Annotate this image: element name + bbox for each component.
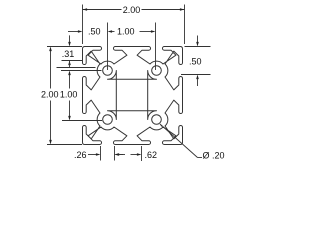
dimension 2.00 left [49,47,52,52]
hole &#216;.20 at (156.5,119.5) [152,115,162,125]
extension line slot opening left edge [100,146,102,161]
center square cavity [108,71,157,120]
svg-text:.50: .50 [189,56,202,66]
dimension .50 top [68,31,78,33]
dimension 2.00 top [83,9,122,11]
extension line slot cavity depth [62,60,83,62]
dimension .26 bottom [88,154,97,156]
leader line for hole diameter [160,124,163,127]
extension line from top-right corner [185,46,211,48]
extension line left slot1 center [61,70,102,72]
extension line left (top 2.00) [82,5,84,45]
hole &#216;.20 at (107.5,70.5) [103,66,113,76]
extension line right (top 2.00) [184,5,186,45]
dimension 1.00 top [112,31,115,33]
svg-text:1.00: 1.00 [60,90,78,100]
svg-text:.62: .62 [145,150,158,160]
svg-text:2.00: 2.00 [123,5,141,15]
dimension 1.00 left [68,71,71,76]
extension line right slot feature [181,74,211,76]
extension line bottom-left corner [47,144,82,146]
extension line slot opening right edge [114,146,116,161]
extension line from top-left corner [47,46,82,48]
extension line slot1 center [107,23,109,71]
svg-text:.50: .50 [88,26,101,36]
dimension .50 right [197,36,199,43]
svg-text:.26: .26 [74,150,87,160]
extension line left slot cavity lower edge [57,67,96,69]
extension line left slot2 center [62,120,102,122]
extension line slot2 center [155,23,157,71]
dimension .31 left [69,35,71,42]
svg-text:.31: .31 [62,49,75,59]
hole &#216;.20 at (156.5,70.5) [152,66,162,76]
svg-text:2.00: 2.00 [41,90,59,100]
svg-text:1.00: 1.00 [117,26,135,36]
hole &#216;.20 at (107.5,119.5) [103,115,113,125]
svg-text:Ø .20: Ø .20 [203,151,225,161]
extrusion outer boundary with 8 T-slots [83,47,183,145]
dimension .62 bottom [115,153,120,156]
extension line right (bottom .62) [141,146,143,161]
